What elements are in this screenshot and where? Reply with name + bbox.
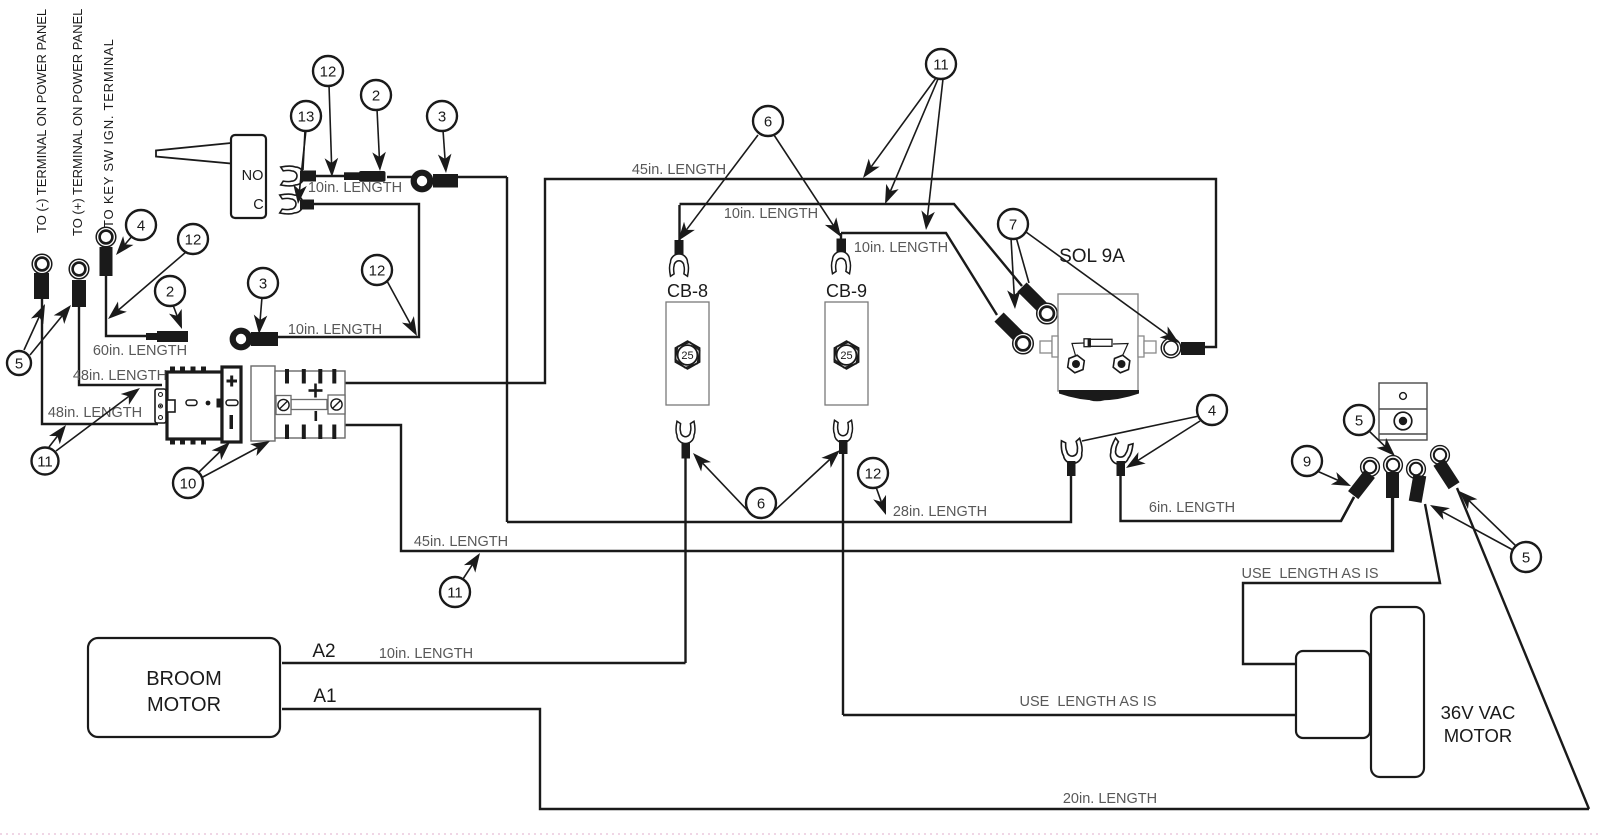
svg-text:C: C (253, 197, 263, 213)
svg-text:USE LENGTH AS IS: USE LENGTH AS IS (1242, 566, 1379, 582)
svg-text:4: 4 (137, 218, 145, 235)
svg-text:TO (-) TERMINAL ON POWER PANEL: TO (-) TERMINAL ON POWER PANEL (34, 9, 49, 233)
svg-text:10in. LENGTH: 10in. LENGTH (288, 322, 382, 338)
svg-text:10in. LENGTH: 10in. LENGTH (724, 206, 818, 222)
svg-text:36V VAC: 36V VAC (1441, 702, 1516, 723)
svg-text:CB-8: CB-8 (667, 281, 708, 301)
svg-text:10in. LENGTH: 10in. LENGTH (379, 646, 473, 662)
svg-text:A1: A1 (313, 686, 336, 707)
svg-text:12: 12 (865, 466, 882, 483)
svg-text:10in. LENGTH: 10in. LENGTH (308, 180, 402, 196)
svg-text:TO (+) TERMINAL ON POWER PANEL: TO (+) TERMINAL ON POWER PANEL (70, 9, 85, 236)
svg-text:3: 3 (259, 276, 267, 293)
svg-text:25: 25 (681, 350, 693, 362)
svg-text:6: 6 (757, 496, 765, 513)
svg-text:3: 3 (438, 109, 446, 126)
svg-text:TO KEY SW IGN. TERMINAL: TO KEY SW IGN. TERMINAL (101, 38, 116, 228)
svg-text:A2: A2 (312, 641, 335, 662)
svg-text:45in. LENGTH: 45in. LENGTH (414, 534, 508, 550)
svg-text:11: 11 (447, 585, 463, 602)
svg-text:12: 12 (369, 263, 386, 280)
svg-text:9: 9 (1303, 454, 1311, 471)
svg-text:MOTOR: MOTOR (147, 694, 221, 716)
svg-text:6: 6 (764, 114, 772, 131)
svg-text:4: 4 (1208, 403, 1216, 420)
svg-text:28in. LENGTH: 28in. LENGTH (893, 504, 987, 520)
svg-text:USE LENGTH AS IS: USE LENGTH AS IS (1020, 694, 1157, 710)
svg-text:20in. LENGTH: 20in. LENGTH (1063, 791, 1157, 807)
svg-text:48in. LENGTH: 48in. LENGTH (73, 368, 167, 384)
svg-text:5: 5 (1522, 550, 1530, 567)
svg-text:BROOM: BROOM (146, 668, 222, 690)
svg-text:2: 2 (166, 284, 174, 301)
svg-text:7: 7 (1009, 217, 1017, 234)
svg-text:10in. LENGTH: 10in. LENGTH (854, 240, 948, 256)
svg-text:60in. LENGTH: 60in. LENGTH (93, 343, 187, 359)
svg-text:13: 13 (298, 109, 315, 126)
svg-text:25: 25 (840, 350, 852, 362)
svg-text:12: 12 (185, 232, 202, 249)
svg-text:MOTOR: MOTOR (1444, 725, 1513, 746)
svg-text:6in. LENGTH: 6in. LENGTH (1149, 500, 1235, 516)
svg-text:CB-9: CB-9 (826, 281, 867, 301)
svg-text:5: 5 (15, 356, 23, 373)
svg-text:10: 10 (180, 476, 197, 493)
svg-text:45in. LENGTH: 45in. LENGTH (632, 162, 726, 178)
svg-text:NO: NO (242, 168, 264, 184)
svg-text:12: 12 (320, 64, 337, 81)
svg-text:11: 11 (37, 454, 53, 471)
svg-text:48in. LENGTH: 48in. LENGTH (48, 405, 142, 421)
svg-text:2: 2 (372, 88, 380, 105)
svg-text:5: 5 (1355, 413, 1363, 430)
svg-text:11: 11 (933, 57, 949, 74)
